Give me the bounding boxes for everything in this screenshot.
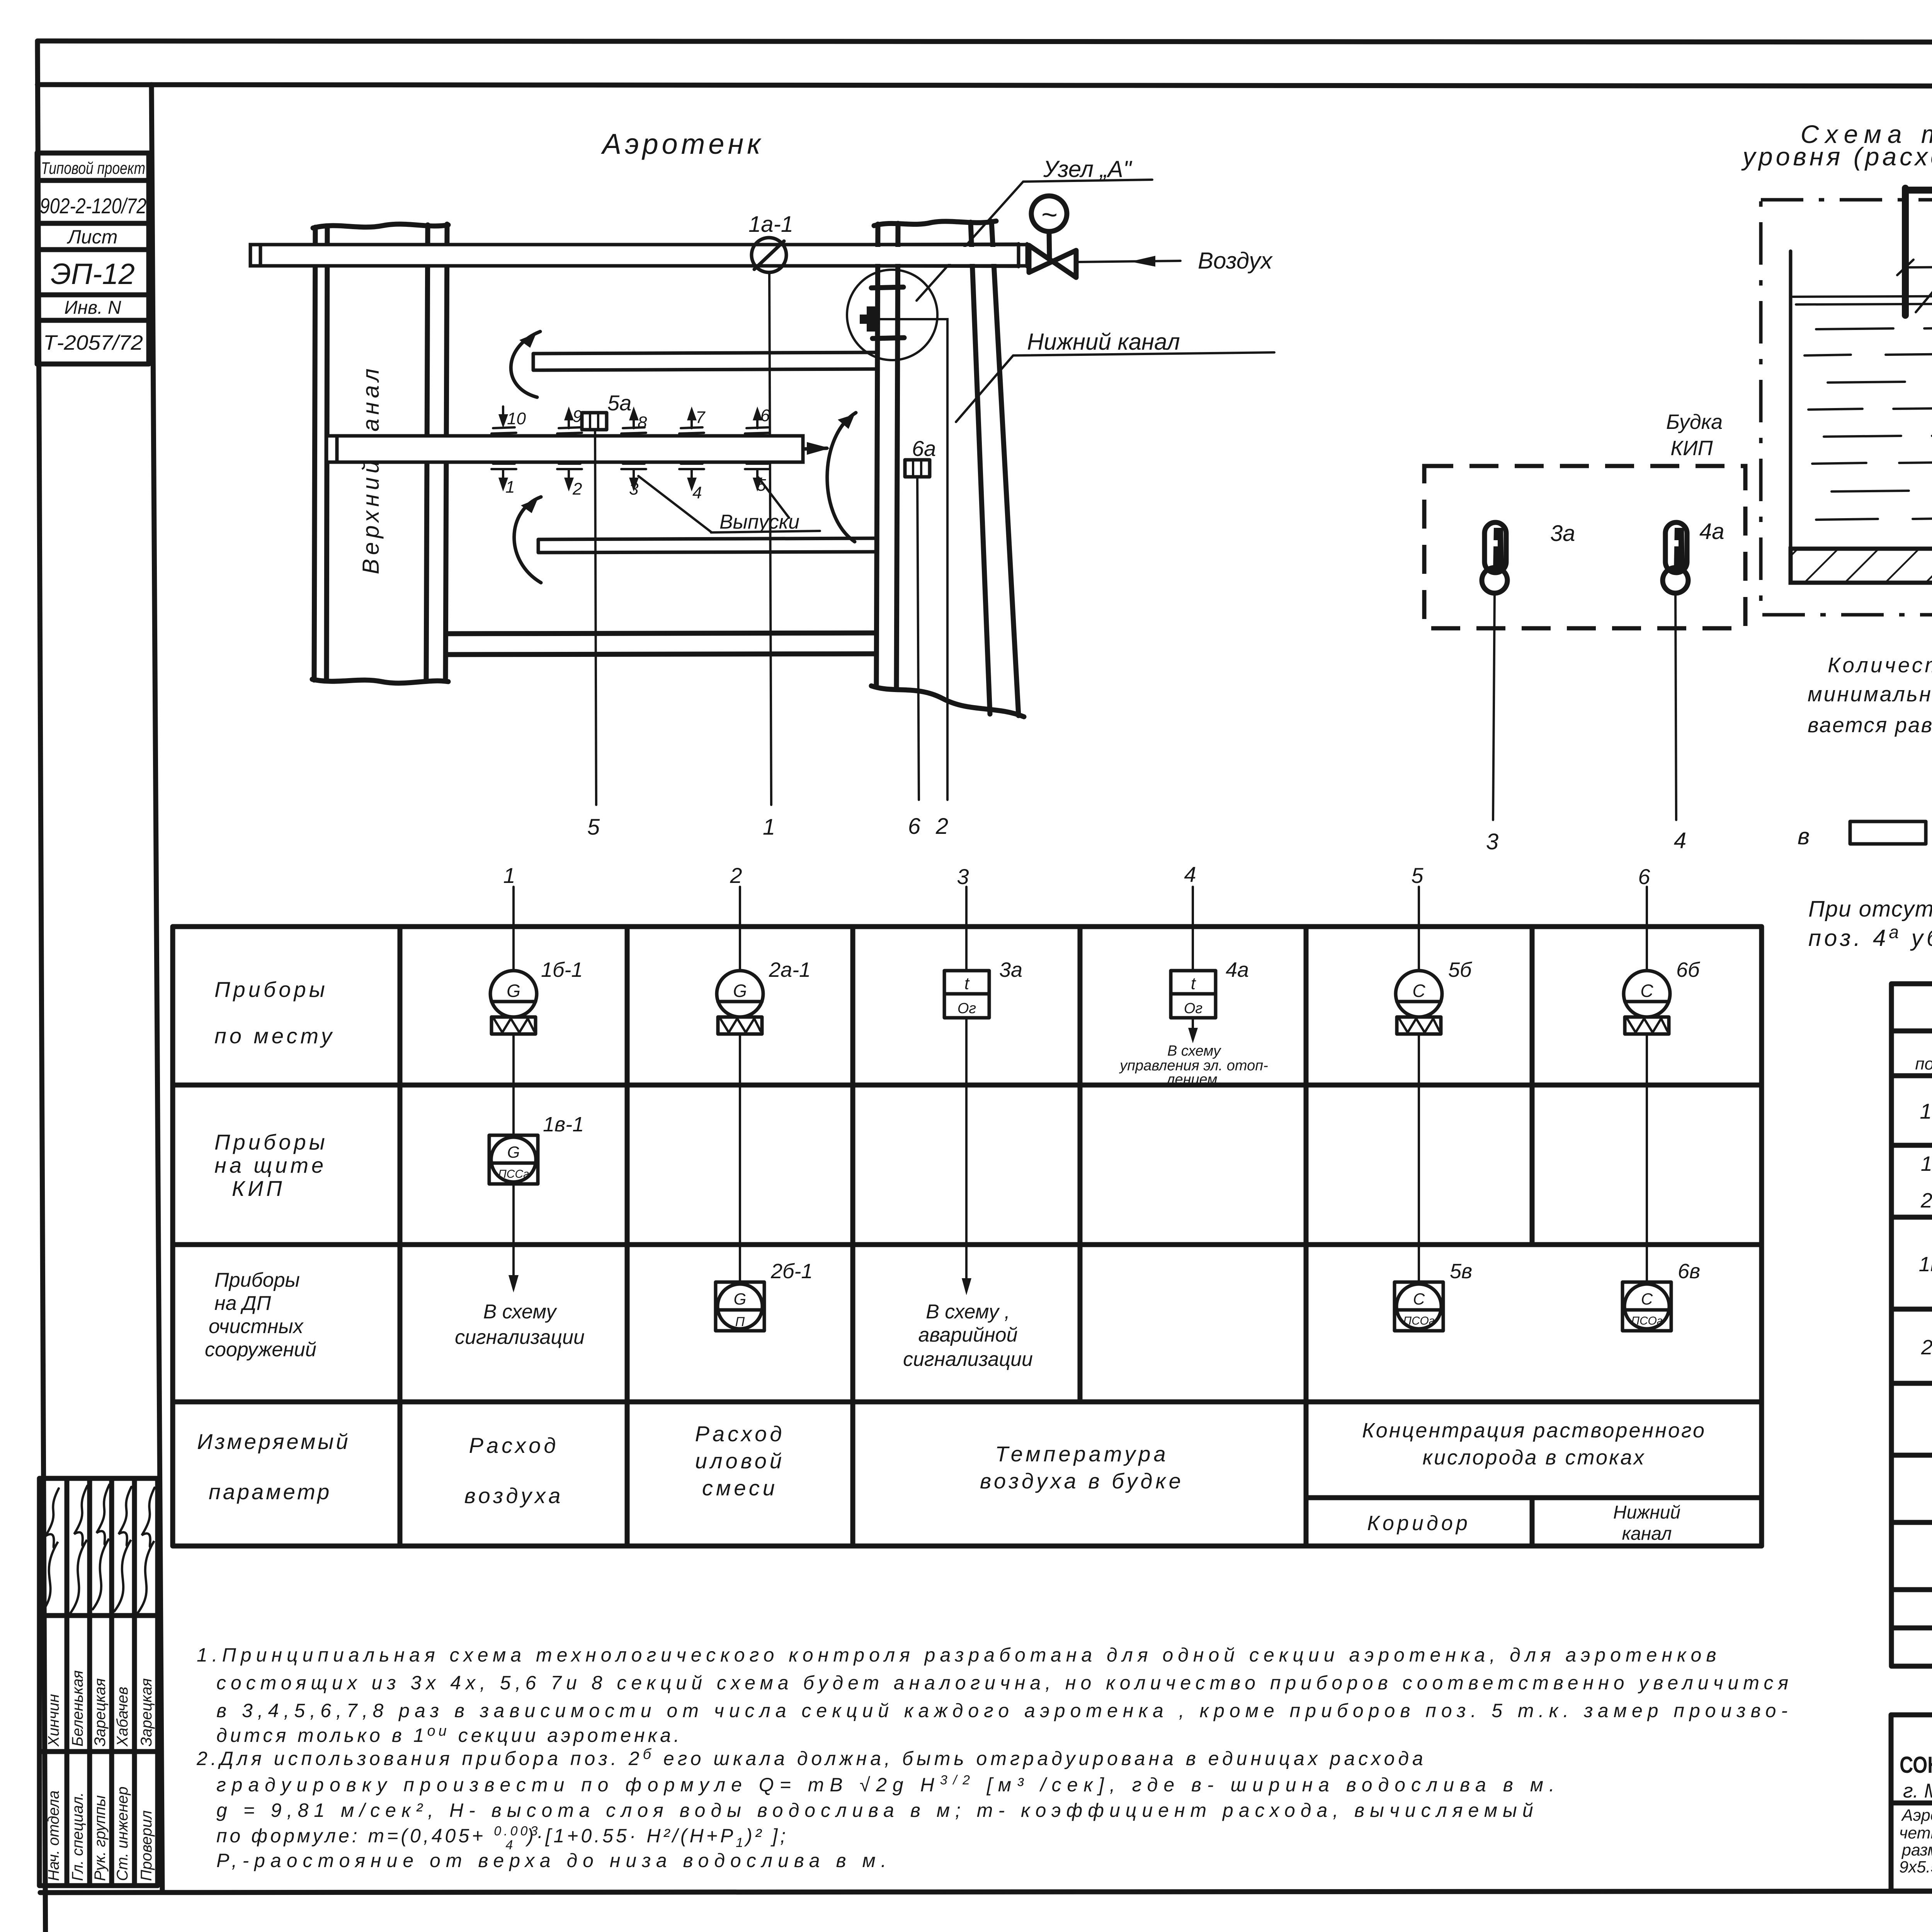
channel bottom break (wavy) (312, 679, 448, 683)
electric actuator circle (~) (1031, 196, 1067, 231)
col6 instrument 6б (circle C + damper box) (1646, 927, 1648, 971)
svg-text:C: C (1640, 981, 1653, 1001)
svg-text:C: C (1641, 1290, 1653, 1308)
svg-text:5в: 5в (1450, 1260, 1472, 1283)
svg-text:Ог: Ог (957, 1000, 976, 1017)
svg-text:Хабачев: Хабачев (114, 1687, 131, 1747)
svg-text:Проверил: Проверил (138, 1810, 155, 1881)
svg-text:Зарецкая: Зарецкая (92, 1678, 109, 1747)
svg-text:1.Принципиальная схема техно: 1.Принципиальная схема технологического … (197, 1644, 1721, 1666)
svg-text:П: П (735, 1315, 745, 1329)
signal line 3 (1493, 593, 1495, 820)
svg-text:6: 6 (760, 406, 770, 425)
svg-text:5а: 5а (607, 391, 631, 415)
svg-text:1в, 2б: 1в, 2б (1919, 1253, 1932, 1276)
lower channel (нижний канал) left wall with узел pipe (876, 224, 878, 685)
svg-text:параметр: параметр (209, 1480, 332, 1504)
numbered stubs above table (503, 862, 1650, 889)
svg-text:Р,-раостояние от верха до: Р,-раостояние от верха до низа водослива… (216, 1850, 892, 1871)
flange marks on узел pipe (871, 287, 903, 288)
svg-text:4а: 4а (1699, 519, 1725, 544)
svg-text:G: G (734, 1290, 747, 1308)
outlet numbers bottom (505, 476, 766, 502)
valve 1a-1 on pipe (circle with diagonal) (752, 238, 786, 272)
svg-text:2а - 1: 2а - 1 (1920, 1189, 1932, 1212)
svg-text:t: t (1191, 974, 1196, 993)
dimension 3Н (1897, 259, 1932, 275)
top pipe left end cap (250, 245, 260, 266)
outlet arrows bottom (498, 471, 762, 492)
bottom slab hatched (1791, 549, 1932, 583)
svg-text:6: 6 (908, 814, 921, 839)
svg-text:G: G (733, 981, 747, 1001)
svg-text:Аэротенки - смесители: Аэротенки - смесители (1901, 1806, 1932, 1825)
svg-text:Воздух: Воздух (1198, 248, 1273, 274)
svg-text:Т-2057/72: Т-2057/72 (43, 331, 143, 354)
signal line 1 down from valve (769, 272, 771, 805)
svg-text:вается равным максимальному: вается равным максимальному перепаду ило… (1808, 713, 1932, 737)
svg-text:смеси: смеси (702, 1476, 778, 1500)
pipe right arrow (803, 448, 827, 449)
water level left compartment (1793, 296, 1932, 304)
svg-text:Инв. N: Инв. N (64, 298, 121, 318)
impulse pipe vertical (1902, 188, 1909, 315)
svg-text:Верхний канал: Верхний канал (358, 365, 384, 574)
gate valve (bowtie) at pipe end (1029, 245, 1076, 277)
svg-text:10: 10 (507, 409, 526, 428)
svg-text:позиций: позиций (1915, 1054, 1932, 1073)
svg-text:Узел „А": Узел „А" (1043, 156, 1133, 182)
svg-text:ЭП-12: ЭП-12 (51, 258, 135, 291)
svg-text:уровня (расхода) жидкости: уровня (расхода) жидкости (1741, 142, 1932, 171)
svg-text:7: 7 (696, 408, 706, 427)
svg-text:2: 2 (730, 863, 742, 888)
inner frame bottom (40, 1891, 1932, 1893)
col2 instrument 2а-1 (circle G + damper box) (739, 927, 741, 971)
tank dash-dot boundary (1761, 200, 1932, 615)
svg-text:Приборы: Приборы (214, 1130, 328, 1154)
stamp boxes (37, 153, 149, 364)
impulse pipe horizontal to budka (1905, 187, 1932, 194)
tank left wall (1789, 251, 1793, 549)
6а box (905, 460, 930, 477)
svg-text:Будка: Будка (1666, 410, 1723, 434)
svg-text:2: 2 (572, 480, 582, 498)
top air pipe (double line) (250, 245, 1027, 266)
svg-text:ПСОг: ПСОг (1631, 1315, 1662, 1327)
svg-text:Коридор: Коридор (1367, 1512, 1471, 1535)
svg-text:5: 5 (587, 815, 600, 840)
svg-text:ПСCг: ПСCг (498, 1168, 529, 1180)
svg-text:~: ~ (1041, 199, 1057, 230)
upper channel right wall (426, 225, 428, 679)
svg-text:g = 9,81 м/сек², Н- высота: g = 9,81 м/сек², Н- высота слоя воды вод… (216, 1799, 1539, 1821)
svg-text:сооружений: сооружений (205, 1338, 316, 1361)
svg-text:г. Москва: г. Москва (1903, 1780, 1932, 1802)
names rotated (45, 1670, 155, 1747)
col4 short arrow + text (1192, 1018, 1194, 1039)
svg-text:1б-1: 1б-1 (541, 958, 583, 981)
outlet stubs (492, 427, 770, 469)
svg-text:в: в (1798, 823, 1810, 849)
svg-text:3а: 3а (999, 958, 1022, 981)
col4 instrument 4а (box t/Ог) (1192, 927, 1194, 971)
top inner line (37, 85, 1932, 87)
svg-text:воздуха в будке: воздуха в будке (980, 1469, 1184, 1493)
svg-text:на ДП: на ДП (214, 1292, 271, 1315)
svg-text:состоящих из 3х 4х, 5,6 7и 8: состоящих из 3х 4х, 5,6 7и 8 секций схем… (216, 1672, 1793, 1694)
svg-text:4: 4 (1674, 828, 1686, 853)
svg-text:Типовой проект: Типовой проект (41, 159, 145, 178)
pipe left cap (327, 436, 337, 462)
svg-text:очистных: очистных (209, 1315, 304, 1338)
svg-text:1: 1 (503, 863, 515, 888)
svg-text:Температура: Температура (995, 1442, 1168, 1466)
flow arc upper (511, 332, 540, 397)
svg-text:9х5.5 к|20 М, из сборного: 9х5.5 к|20 М, из сборного (1899, 1858, 1932, 1876)
svg-text:Приборы: Приборы (214, 1269, 300, 1291)
5а box (582, 413, 607, 430)
job titles rotated (45, 1786, 155, 1881)
svg-text:2а-1: 2а-1 (769, 958, 811, 981)
col6 instrument 6в (square C/ПСОг) (1622, 1282, 1671, 1331)
svg-text:1б - 1: 1б - 1 (1921, 1152, 1932, 1175)
svg-text:Концентрация растворенного: Концентрация растворенного (1362, 1419, 1706, 1442)
svg-text:В схему ,: В схему , (926, 1301, 1010, 1323)
svg-text:КИП: КИП (232, 1176, 285, 1201)
узел А circle (847, 270, 937, 360)
svg-text:6б: 6б (1676, 958, 1700, 981)
будка КИП dashed box (1424, 466, 1745, 628)
воздух line with arrow (1078, 261, 1180, 262)
central aeration pipe (327, 436, 803, 462)
svg-text:на щите: на щите (214, 1153, 327, 1177)
svg-text:2в - 1: 2в - 1 (1921, 1336, 1932, 1359)
tank bottom double line (446, 633, 876, 634)
lower channel right wall (971, 222, 990, 714)
svg-text:лением.: лением. (1166, 1071, 1221, 1088)
svg-text:Зарецкая: Зарецкая (138, 1678, 155, 1747)
svg-text:C: C (1413, 1290, 1425, 1308)
svg-text:минимальным (от 0,5 до 2 л/мин: минимальным (от 0,5 до 2 л/мин), давлени… (1808, 682, 1932, 706)
col1 instrument 1б-1 (circle G + damper box) (512, 927, 515, 971)
svg-text:градуировку произвести по: градуировку произвести по формуле Q= mB … (216, 1773, 1560, 1796)
signal line 4 (1675, 593, 1676, 820)
svg-text:кислорода в стоках: кислорода в стоках (1422, 1446, 1645, 1469)
lower channel bottom break (871, 686, 1024, 717)
thermometer 3а (1482, 522, 1507, 593)
svg-text:СОЮЗВОДОКАНАЛПРОЕКТ: СОЮЗВОДОКАНАЛПРОЕКТ (1900, 1752, 1932, 1778)
svg-text:Рук. группы: Рук. группы (92, 1795, 109, 1881)
svg-text:Расход: Расход (695, 1422, 785, 1446)
svg-text:3а: 3а (1550, 521, 1575, 546)
svg-text:Нижний канал: Нижний канал (1027, 329, 1180, 355)
svg-text:3: 3 (629, 480, 639, 498)
signal line 5 (595, 430, 596, 805)
svg-text:четырехкоридорные с: четырехкоридорные с (1899, 1824, 1932, 1842)
svg-text:Аэротенк: Аэротенк (601, 128, 764, 160)
svg-text:2.Для использования прибор: 2.Для использования прибора поз. 2б его … (196, 1746, 1427, 1769)
svg-text:5б: 5б (1448, 958, 1472, 981)
svg-text:В схему: В схему (483, 1301, 558, 1323)
svg-text:4а: 4а (1226, 958, 1249, 981)
svg-text:по месту: по месту (214, 1024, 335, 1048)
svg-text:1: 1 (763, 815, 775, 840)
svg-text:G: G (507, 981, 520, 1001)
svg-text:2: 2 (935, 814, 948, 839)
flow arc lower (514, 497, 541, 583)
svg-text:Хинчин: Хинчин (45, 1694, 62, 1747)
svg-text:1а - 1: 1а - 1 (1920, 1099, 1932, 1123)
svg-text:Беленькая: Беленькая (69, 1670, 86, 1747)
diaphragm black symbol (867, 306, 878, 332)
svg-text:G: G (507, 1143, 520, 1161)
upper channel left wall (314, 227, 315, 680)
svg-text:Нач. отдела: Нач. отдела (45, 1791, 62, 1881)
svg-text:Количества продуваемого возд: Количества продуваемого воздуха устанавл… (1828, 653, 1932, 677)
svg-text:иловой: иловой (695, 1449, 785, 1473)
svg-text:3: 3 (1486, 829, 1498, 854)
svg-text:1в-1: 1в-1 (543, 1113, 584, 1136)
thermometer 4а (1663, 522, 1688, 593)
svg-text:902-2-120/72: 902-2-120/72 (40, 194, 146, 218)
svg-text:Нижний: Нижний (1613, 1502, 1680, 1523)
svg-text:8: 8 (638, 413, 647, 432)
upper baffle (533, 352, 877, 370)
svg-text:1а-1: 1а-1 (748, 212, 793, 237)
stamp column vertical (151, 85, 162, 1892)
col3 instrument 3а (box t/Ог) (965, 927, 968, 971)
svg-text:Измеряемый: Измеряемый (197, 1429, 350, 1454)
svg-text:поз. 4а убрать.: поз. 4а убрать. (1808, 922, 1932, 951)
pipe crossing mask over channel walls (869, 247, 1026, 264)
svg-text:4: 4 (1184, 862, 1196, 886)
outlet arrows top (498, 406, 762, 428)
svg-text:Ст. инженер: Ст. инженер (114, 1786, 131, 1881)
water dashes left (1804, 328, 1932, 520)
svg-text:КИП: КИП (1670, 437, 1713, 460)
svg-text:В схему: В схему (1167, 1043, 1221, 1059)
svg-text:сигнализации: сигнализации (903, 1348, 1033, 1371)
svg-text:5: 5 (1411, 863, 1423, 888)
svg-text:C: C (1412, 981, 1425, 1001)
svg-text:2б-1: 2б-1 (770, 1260, 813, 1283)
lower baffle (538, 538, 877, 553)
svg-text:ПСОг: ПСОг (1403, 1315, 1434, 1327)
col5 instrument 5в (square C/ПСОг) (1395, 1282, 1443, 1331)
channel top break (wavy) (313, 224, 448, 228)
col3 line down with arrow (965, 1018, 968, 1290)
svg-text:При отсутствии электроотопле: При отсутствии электроотопления в будке … (1808, 896, 1932, 922)
col1 instrument 1в-1 (square G/ПСCг) (489, 1135, 538, 1184)
svg-text:Ог: Ог (1184, 1000, 1202, 1017)
svg-text:t: t (964, 974, 970, 993)
impulse line from diaphragm (878, 319, 947, 800)
lower channel top break (874, 221, 996, 226)
svg-text:Приборы: Приборы (214, 977, 328, 1002)
svg-text:аварийной: аварийной (918, 1324, 1017, 1346)
col2 instrument 2б-1 (square G/П) (716, 1282, 764, 1331)
svg-text:6: 6 (1638, 864, 1650, 889)
actuator stem (1049, 232, 1049, 258)
svg-text:6а: 6а (912, 436, 936, 461)
svg-text:дится только в 1ои секции: дится только в 1ои секции аэротенка. (216, 1723, 682, 1746)
svg-text:4: 4 (692, 483, 702, 502)
svg-text:6в: 6в (1678, 1260, 1700, 1283)
svg-text:Гл. специал.: Гл. специал. (69, 1792, 86, 1881)
svg-text:Расход: Расход (469, 1433, 559, 1458)
svg-text:размерами коридора: размерами коридора (1901, 1841, 1932, 1859)
signatures squiggles (43, 1485, 155, 1613)
flow arc right (827, 413, 856, 542)
svg-text:1: 1 (505, 478, 515, 497)
top pipe right end cap (1019, 244, 1027, 267)
svg-text:воздуха: воздуха (464, 1483, 564, 1508)
outlet numbers top (507, 406, 770, 432)
svg-text:канал: канал (1622, 1524, 1672, 1544)
svg-text:сигнализации: сигнализации (455, 1326, 585, 1349)
signal line 6 (917, 477, 919, 800)
svg-text:Лист: Лист (67, 226, 118, 248)
svg-text:3: 3 (957, 864, 969, 889)
svg-text:в 3,4,5,6,7,8 раз в зависимос: в 3,4,5,6,7,8 раз в зависимости от числа… (216, 1700, 1793, 1721)
col1 arrow to В схему сигнализации (512, 1184, 515, 1287)
col5 instrument 5б (circle C + damper box) (1418, 927, 1420, 971)
